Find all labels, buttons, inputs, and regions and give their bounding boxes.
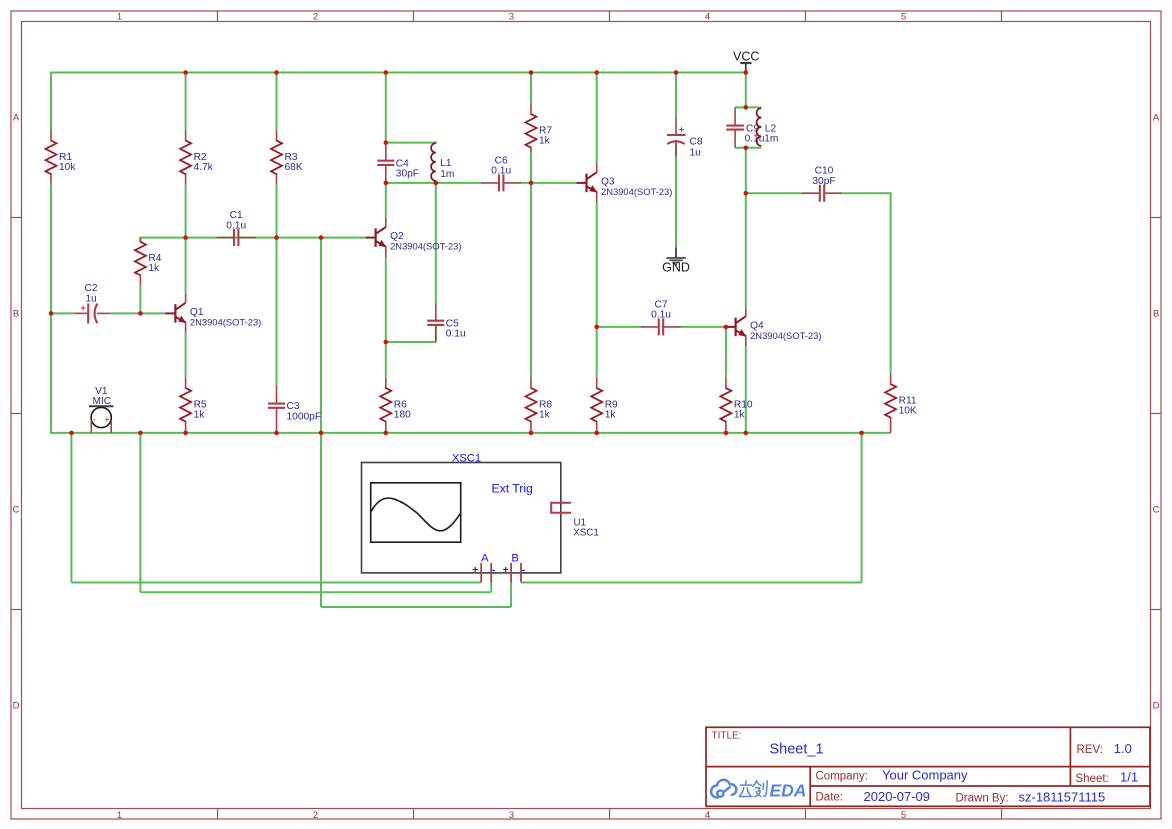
junction R7 bottom / C6 row — [529, 181, 534, 186]
wire VCC top rail — [51, 72, 746, 74]
resistor R8 1k — [526, 378, 553, 433]
wire ground rail — [51, 432, 891, 434]
wire C7 right to Q4 base node — [679, 326, 726, 328]
wire scope B+ horizontal — [321, 606, 511, 608]
wire C6 right to Q3 base — [519, 182, 576, 184]
svg-text:+: + — [472, 564, 478, 576]
svg-text:GND: GND — [662, 260, 690, 274]
svg-text:10k: 10k — [59, 162, 76, 173]
junction L1 bottom / C5 — [434, 181, 439, 186]
inductor L1 1m — [431, 143, 454, 183]
svg-text:EDA: EDA — [770, 781, 807, 801]
svg-text:Your Company: Your Company — [882, 768, 968, 783]
wire L1 top corner stub — [435, 142, 437, 144]
svg-text:1m: 1m — [440, 169, 454, 180]
transistor Q1 — [165, 294, 261, 333]
svg-text:3: 3 — [509, 12, 514, 23]
wire L1 node down to C5 top — [435, 183, 437, 303]
svg-text:2: 2 — [313, 12, 318, 23]
wire R7 top pin to rail — [530, 73, 532, 105]
svg-text:5: 5 — [901, 810, 906, 821]
junction VCC rail / VCC pin — [744, 70, 749, 75]
svg-text:B: B — [511, 552, 518, 564]
wire mic node down to scope A+ — [70, 433, 72, 583]
svg-text:0.1u: 0.1u — [745, 134, 765, 145]
svg-text:Sheet_1: Sheet_1 — [770, 742, 824, 758]
resistor R10 1k — [720, 378, 753, 433]
junction C4 bottom / Q2 collector — [384, 181, 389, 186]
wire left column top (VCC rail to R1) — [50, 72, 52, 131]
capacitor C4 30pF — [377, 143, 419, 183]
wire left column bottom (R1 to ground rail) — [50, 184, 52, 434]
wire Q1 collector up to base row node — [185, 238, 187, 294]
resistor R1 10k — [46, 131, 77, 185]
resistor R11 10K — [885, 374, 917, 433]
wire VCC node down to tank — [745, 73, 747, 108]
wire R4 bottom to Q1 base row — [139, 285, 141, 313]
junction ground rail / Q4 emitter — [744, 431, 749, 436]
svg-text:10K: 10K — [899, 405, 917, 416]
svg-text:TITLE:: TITLE: — [712, 731, 742, 742]
capacitor C8 1u — [667, 118, 703, 159]
svg-text:-: - — [93, 415, 96, 424]
svg-text:2N3904(SOT-23): 2N3904(SOT-23) — [601, 186, 672, 197]
microphone V1 MIC — [89, 386, 114, 433]
capacitor C2 1u — [74, 283, 110, 323]
svg-text:Ext Trig: Ext Trig — [492, 481, 533, 495]
capacitor C1 0.1u — [217, 210, 256, 246]
svg-text:1/1: 1/1 — [1120, 770, 1138, 785]
svg-text:1k: 1k — [734, 409, 746, 420]
junction ground rail / A- tap — [138, 431, 143, 436]
svg-text:-: - — [522, 564, 526, 576]
wire R4 top stub — [139, 237, 141, 242]
svg-text:1k: 1k — [605, 409, 617, 420]
wire tank top bridge — [735, 106, 761, 108]
junction base row / B+ tap — [319, 235, 324, 240]
wire Q1 base row to C2 left — [51, 312, 74, 314]
wire R2 bottom to Q2-base row — [185, 184, 187, 238]
svg-text:+: + — [80, 303, 86, 314]
capacitor C3 1000pF — [268, 387, 321, 433]
wire tank bottom bridge — [735, 147, 761, 149]
wire C8 top to rail — [675, 73, 677, 118]
ground GND — [662, 248, 690, 275]
inductor L2 1m — [757, 108, 779, 146]
logo EasyEDA — [711, 780, 736, 798]
junction VCC rail / R3 — [274, 70, 279, 75]
wire R7 bottom pin to node — [530, 152, 532, 183]
svg-text:2N3904(SOT-23): 2N3904(SOT-23) — [190, 316, 261, 327]
svg-text:C: C — [13, 505, 20, 516]
svg-text:REV:: REV: — [1077, 744, 1103, 756]
oscilloscope U1 XSC1 — [362, 452, 599, 582]
svg-text:180: 180 — [394, 409, 411, 420]
resistor R4 1k — [135, 238, 162, 286]
svg-text:C8: C8 — [690, 136, 703, 147]
resistor R5 1k — [180, 378, 207, 433]
junction R2 / base row — [183, 235, 188, 240]
power VCC — [733, 50, 759, 73]
wire scope B- up to ground rail — [861, 433, 863, 583]
wire Q2 emitter row to C5 — [386, 341, 436, 343]
junction C7 row / R10 — [724, 325, 729, 330]
wire Q3 emitter node to C7 left — [597, 326, 643, 328]
junction tank bottom — [744, 146, 749, 151]
title block — [706, 727, 1150, 806]
wire R3 top pin to rail — [276, 73, 278, 131]
wire R3 bottom to node row — [276, 184, 278, 238]
wire scope A- horizontal — [140, 591, 491, 593]
junction VCC rail / R7 — [529, 70, 534, 75]
wire tank node to C6 left — [436, 182, 483, 184]
svg-text:0.1u: 0.1u — [491, 166, 511, 177]
svg-text:0.1u: 0.1u — [226, 220, 246, 231]
svg-text:+: + — [679, 125, 685, 136]
svg-text:VCC: VCC — [733, 50, 759, 64]
wire R3 node down to C3 — [276, 238, 278, 388]
svg-text:1m: 1m — [764, 134, 778, 145]
transistor Q2 — [366, 218, 462, 257]
wire scope A+ horizontal — [71, 582, 481, 584]
wire C10 right pin to output column — [840, 192, 891, 194]
svg-text:C: C — [1153, 505, 1160, 516]
wire Q1 emitter down to R5 — [185, 333, 187, 378]
junction C10 node — [744, 191, 749, 196]
svg-text:1k: 1k — [539, 409, 551, 420]
wire rail to C4 top node — [385, 73, 387, 143]
wire R10 top pin to node — [725, 327, 727, 378]
capacitor C6 0.1u — [482, 155, 521, 191]
wire C4-L1 bottom link — [386, 182, 436, 184]
svg-text:4.7k: 4.7k — [194, 162, 214, 173]
svg-text:C2: C2 — [84, 283, 97, 294]
svg-text:2020-07-09: 2020-07-09 — [864, 789, 931, 804]
svg-text:A: A — [481, 552, 489, 564]
svg-text:-: - — [492, 564, 496, 576]
wire scope B+ drop — [510, 582, 512, 607]
svg-text:+: + — [503, 564, 509, 576]
junction C4 top node — [384, 140, 389, 145]
resistor R9 1k — [591, 378, 618, 433]
junction ground rail / B- tap — [859, 431, 864, 436]
junction ground rail / R9 — [594, 431, 599, 436]
junction ground rail / R8 — [529, 431, 534, 436]
junction left column / C2 — [49, 311, 54, 316]
junction VCC rail / R2 — [183, 70, 188, 75]
svg-text:1: 1 — [117, 12, 122, 23]
svg-text:2N3904(SOT-23): 2N3904(SOT-23) — [750, 330, 821, 341]
wire Q2 base row — [140, 237, 365, 239]
svg-text:A: A — [13, 113, 20, 124]
svg-text:2: 2 — [313, 810, 318, 821]
wire scope B+ tap column — [320, 238, 322, 607]
svg-text:A: A — [1153, 113, 1160, 124]
wire Q2 collector up to tank node — [385, 183, 387, 218]
svg-text:0.1u: 0.1u — [651, 310, 671, 321]
svg-text:1.0: 1.0 — [1114, 741, 1132, 756]
junction ground rail / B+ column — [319, 431, 324, 436]
junction ground rail / R10 — [724, 431, 729, 436]
wire C8 bottom to GND — [675, 144, 677, 248]
wire C2 right to Q1 base — [110, 312, 165, 314]
svg-text:4: 4 — [705, 810, 710, 821]
transistor Q4 — [726, 307, 822, 346]
svg-text:B: B — [13, 309, 19, 320]
wire C4-L1 top link — [386, 142, 436, 144]
svg-text:MIC: MIC — [92, 396, 111, 407]
wire scope B- horizontal — [521, 582, 862, 584]
svg-text:1000pF: 1000pF — [287, 412, 322, 423]
wire Q3 collector to rail — [596, 73, 598, 164]
wire tank to C10 node — [745, 148, 747, 193]
resistor R3 68K — [271, 131, 303, 185]
wire Q2 emitter down — [385, 257, 387, 342]
wire R2 top pin to rail — [185, 73, 187, 131]
junction VCC rail / C8 — [674, 70, 679, 75]
wire C5 bottom stub — [435, 325, 437, 342]
svg-text:+: + — [105, 415, 110, 424]
svg-text:Sheet:: Sheet: — [1076, 773, 1109, 785]
wire Q3 emitter down to R9 — [596, 202, 598, 378]
wire node down for scope A- — [139, 433, 141, 592]
junction ground rail / R6 — [384, 431, 389, 436]
svg-text:30pF: 30pF — [812, 176, 835, 187]
resistor R7 1k — [526, 104, 553, 152]
svg-text:5: 5 — [901, 12, 906, 23]
junction tank top — [744, 105, 749, 110]
transistor Q3 — [577, 163, 673, 202]
junction VCC rail / C4 column — [384, 70, 389, 75]
junction C1 / R3 node — [274, 235, 279, 240]
junction VCC rail / Q3 collector — [594, 70, 599, 75]
svg-text:1u: 1u — [690, 147, 701, 158]
svg-text:B: B — [1153, 309, 1159, 320]
svg-text:1k: 1k — [194, 409, 206, 420]
svg-text:3: 3 — [509, 810, 514, 821]
capacitor C5 0.1u — [427, 303, 465, 342]
junction Q2 emitter / C5 row — [384, 340, 389, 345]
svg-text:L1: L1 — [440, 158, 452, 169]
junction R4 / C2 row — [138, 311, 143, 316]
svg-text:D: D — [13, 701, 20, 712]
junction ground rail / mic tap — [69, 431, 74, 436]
wire Q2 emitter node down to R6 — [385, 342, 387, 378]
junction ground rail / C3 — [274, 431, 279, 436]
junction ground rail / R5 — [183, 431, 188, 436]
wire C10 node to C10 left pin — [746, 192, 804, 194]
capacitor C9 0.1u — [726, 107, 764, 147]
svg-text:4: 4 — [705, 12, 710, 23]
svg-text:Company:: Company: — [816, 771, 868, 783]
svg-text:1u: 1u — [85, 293, 96, 304]
svg-text:1k: 1k — [539, 135, 551, 146]
svg-text:Drawn By:: Drawn By: — [956, 793, 1009, 805]
svg-text:XSC1: XSC1 — [452, 452, 481, 464]
wire C10 node down to Q4 collector — [745, 193, 747, 307]
svg-text:2N3904(SOT-23): 2N3904(SOT-23) — [390, 241, 461, 252]
svg-text:D: D — [1153, 701, 1160, 712]
svg-text:sz-1811571115: sz-1811571115 — [1019, 790, 1106, 805]
resistor R2 4.7k — [180, 131, 214, 185]
svg-text:1: 1 — [117, 810, 122, 821]
svg-text:30pF: 30pF — [396, 169, 419, 180]
svg-text:1k: 1k — [148, 263, 160, 274]
wire node down to R8 — [530, 183, 532, 378]
svg-text:68K: 68K — [285, 162, 303, 173]
wire scope A- drop — [490, 582, 492, 592]
svg-text:XSC1: XSC1 — [573, 527, 599, 538]
capacitor C7 0.1u — [642, 299, 681, 335]
svg-text:Date:: Date: — [816, 792, 844, 804]
wire output column down to R11 — [890, 192, 892, 374]
resistor R6 180 — [380, 378, 411, 433]
capacitor C10 30pF — [803, 166, 842, 202]
wire Q4 emitter to ground rail — [745, 346, 747, 434]
svg-text:0.1u: 0.1u — [446, 329, 466, 340]
junction Q3 emitter / C7 row — [594, 325, 599, 330]
